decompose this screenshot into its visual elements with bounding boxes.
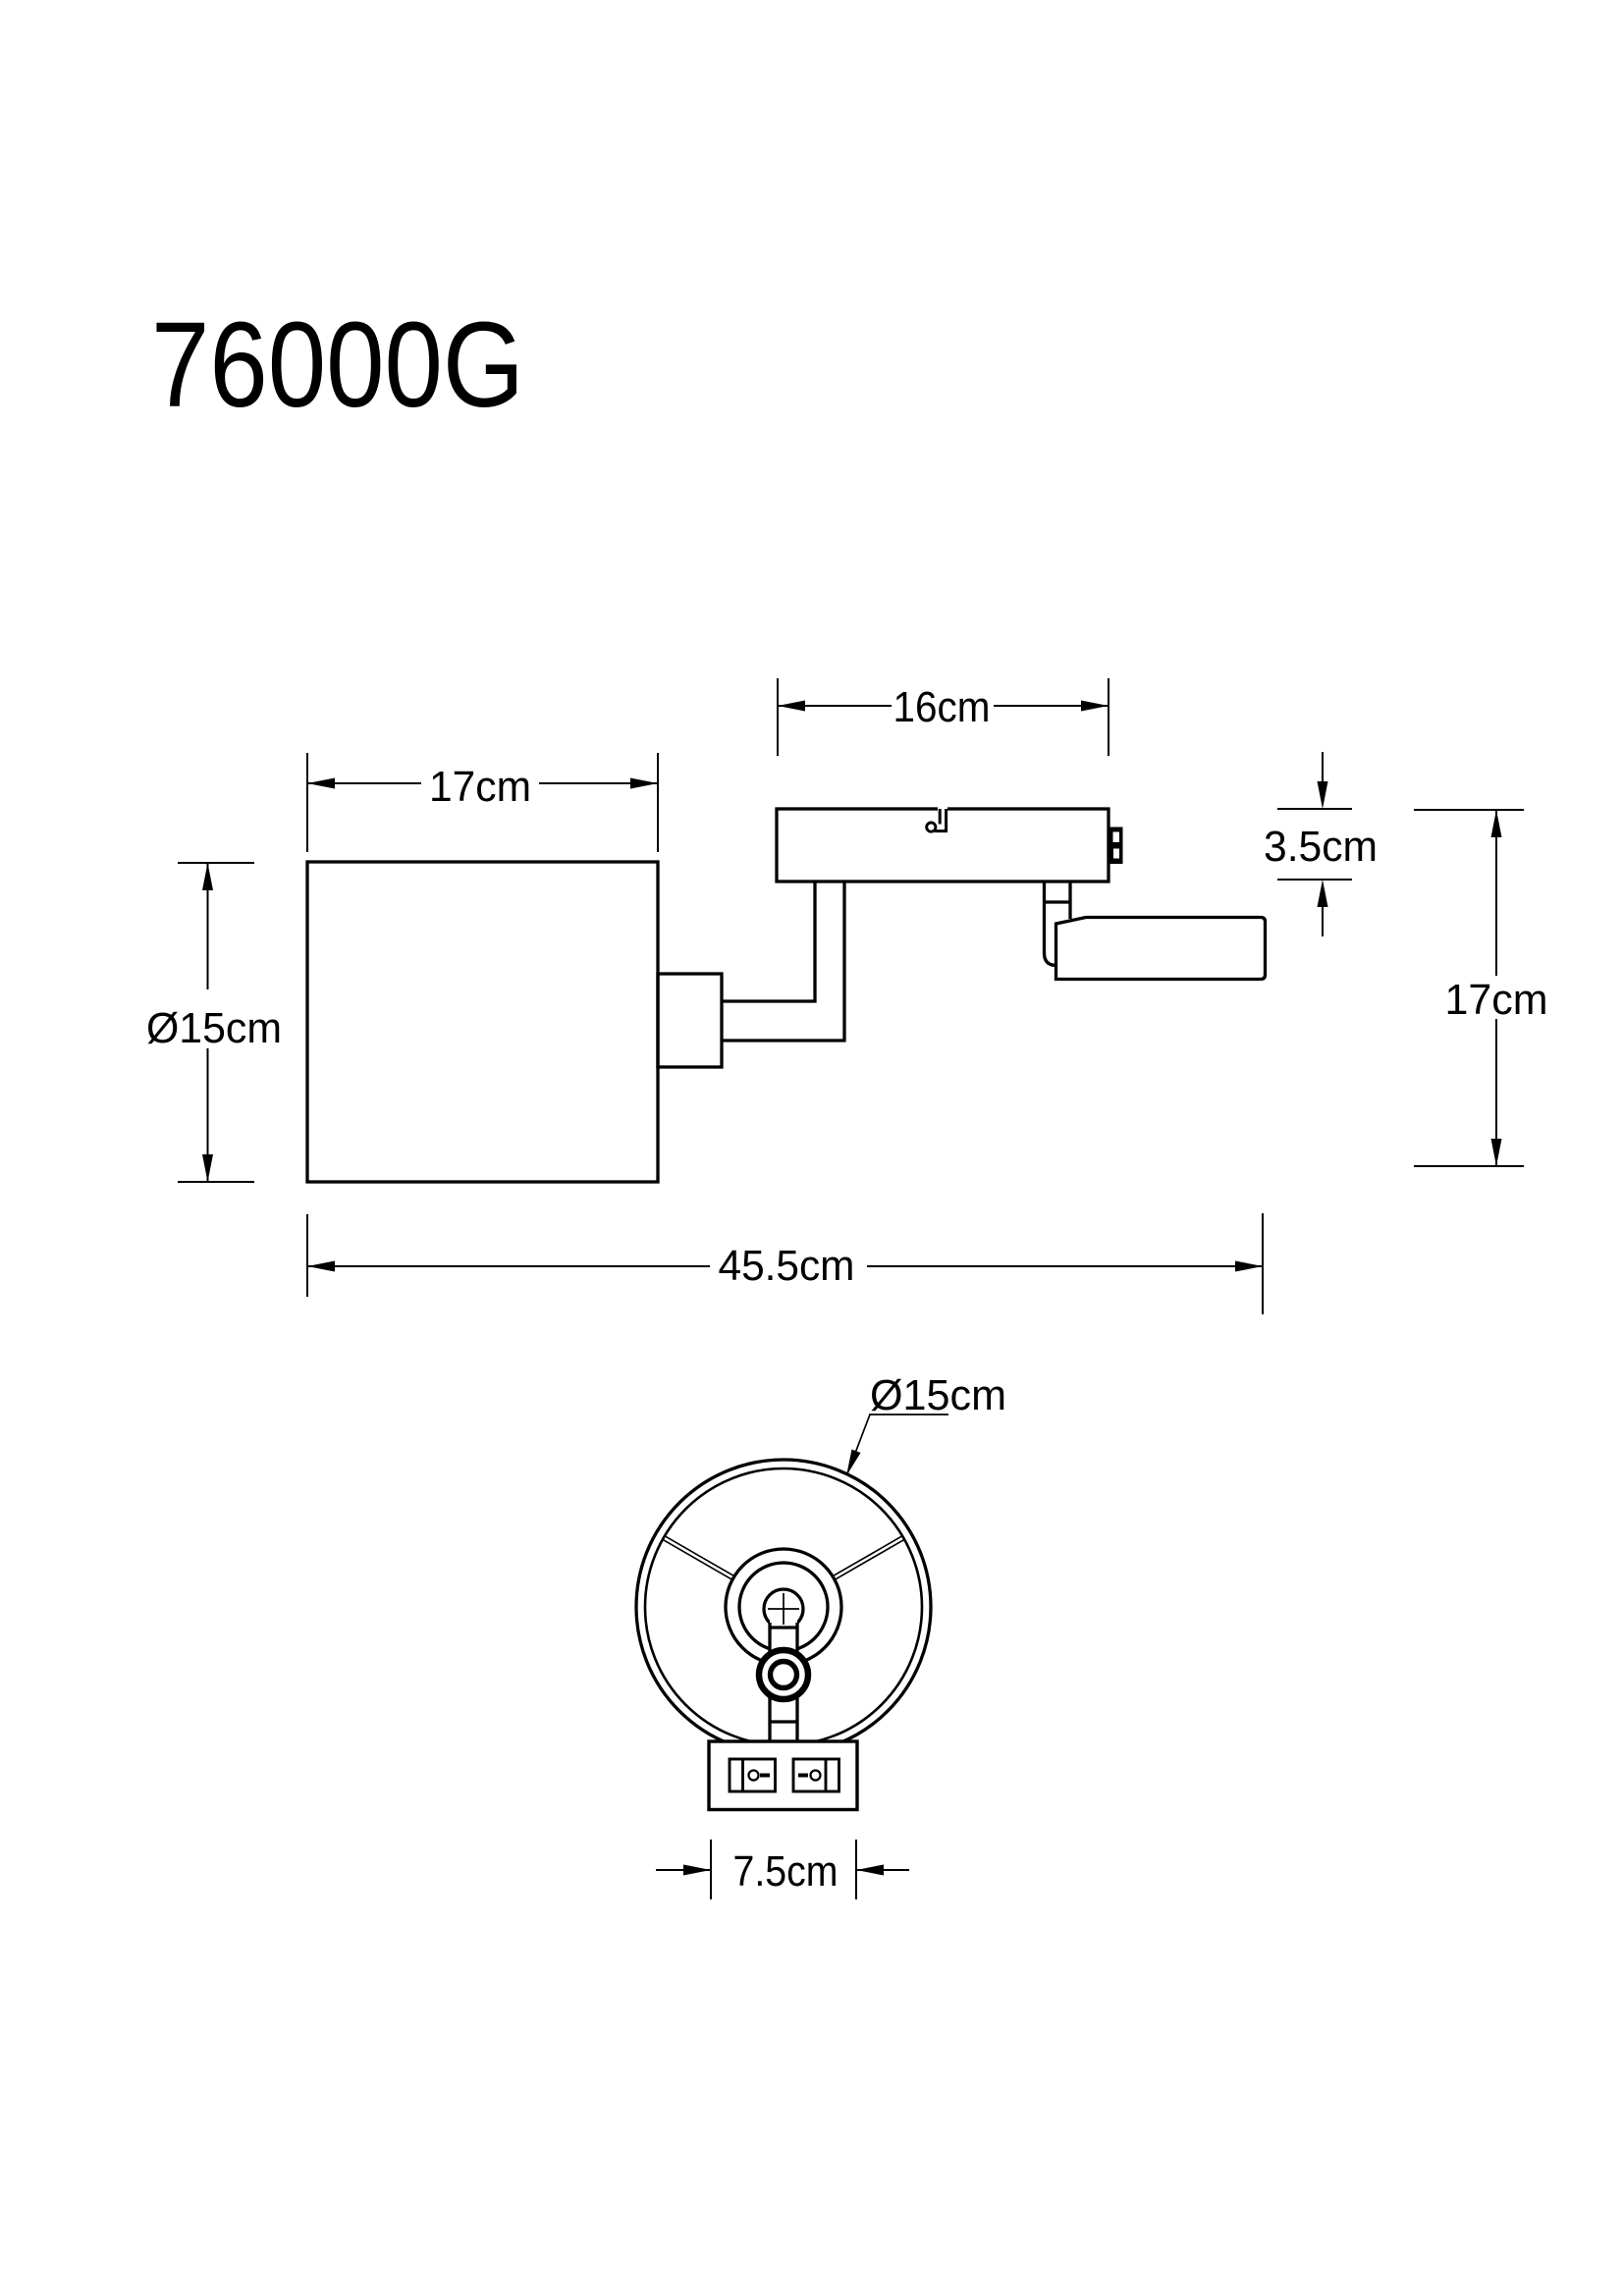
dim 17cm right: dimension line <box>1495 810 1497 1166</box>
dim 45.5cm: arrowheads <box>307 1261 335 1272</box>
right switch <box>793 1759 839 1791</box>
lamp shade (side view) <box>307 862 658 1182</box>
knuckle inner circle <box>771 1662 797 1688</box>
shade inner circle <box>645 1468 922 1745</box>
dim 17cm top: extension lines <box>307 753 658 852</box>
spot lamp head <box>1056 918 1266 980</box>
dim 3.5cm: ticks <box>1277 809 1352 880</box>
dim Ø15cm left: label <box>145 989 284 1048</box>
dim 16cm: label <box>892 684 994 727</box>
shade outer circle (bottom view) <box>636 1460 931 1754</box>
dim 17cm right: arrowheads <box>1491 810 1502 837</box>
dim 17cm top: label <box>421 761 539 806</box>
svg-text:Ø15cm: Ø15cm <box>870 1371 1006 1419</box>
dim 16cm: dimension line <box>778 705 1109 707</box>
arm <box>722 882 844 1041</box>
socket <box>658 974 722 1067</box>
dim 16cm: extension lines <box>778 678 1109 756</box>
svg-text:45.5cm: 45.5cm <box>719 1242 855 1290</box>
dim 3.5cm: arrowheads <box>1318 781 1328 809</box>
svg-text:17cm: 17cm <box>429 763 531 811</box>
right spoke <box>833 1536 904 1580</box>
dim 17cm top: arrowheads <box>307 778 335 789</box>
dim Ø15cm left: ticks <box>178 863 254 1182</box>
dim 45.5cm: dimension line <box>307 1265 1263 1267</box>
dim 17cm right: ticks <box>1414 810 1524 1166</box>
dim 7.5cm: arrow lines <box>656 1869 909 1871</box>
stem crosslines <box>770 1628 797 1722</box>
dim 16cm: arrowheads <box>778 701 805 712</box>
dim 17cm right: label <box>1440 976 1552 1019</box>
stem sides <box>770 1623 797 1744</box>
bracket crossbar <box>1045 900 1071 903</box>
svg-text:7.5cm: 7.5cm <box>733 1847 839 1896</box>
stem mask <box>770 1620 797 1744</box>
hook slot on plate <box>927 805 947 831</box>
knuckle joint ring <box>759 1650 808 1699</box>
svg-text:17cm: 17cm <box>1445 976 1548 1024</box>
left switch <box>730 1759 776 1791</box>
dim 17cm top: dimension line <box>307 782 658 784</box>
svg-text:76000G: 76000G <box>151 298 524 433</box>
dim 45.5cm: label <box>710 1241 867 1284</box>
lamp holder outer ring <box>726 1549 841 1665</box>
dim 3.5cm: arrow lines <box>1322 752 1324 936</box>
bracket joint under plate <box>1045 882 1057 966</box>
bulb circle <box>764 1589 803 1629</box>
dim 45.5cm: extension lines <box>307 1213 1263 1314</box>
svg-text:Ø15cm: Ø15cm <box>146 1004 282 1052</box>
bulb cross <box>768 1593 799 1625</box>
svg-text:3.5cm: 3.5cm <box>1264 823 1378 871</box>
terminal connector on plate right edge <box>1109 828 1123 865</box>
dim Ø15cm left: dimension line <box>207 863 209 1182</box>
switch box <box>709 1741 857 1810</box>
dim 7.5cm: arrowheads <box>683 1865 711 1876</box>
mounting plate <box>777 809 1109 881</box>
dim Ø15cm left: arrowheads <box>202 863 213 890</box>
left spoke <box>663 1536 734 1580</box>
dim 7.5cm: extension lines <box>711 1840 856 1899</box>
lamp holder inner ring <box>739 1563 828 1651</box>
svg-text:16cm: 16cm <box>893 683 991 731</box>
